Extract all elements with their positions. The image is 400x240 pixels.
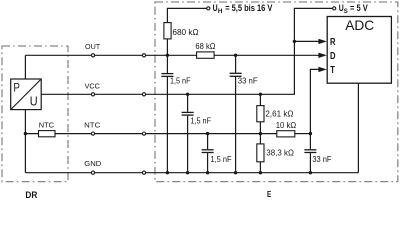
terminal UH: [207, 7, 210, 10]
svg-text:68 kΩ: 68 kΩ: [195, 42, 215, 51]
svg-text:NTC: NTC: [84, 121, 101, 130]
svg-text:33 nF: 33 nF: [312, 155, 331, 164]
wire OUT line: [25, 54, 319, 56]
wire R line with arrow into ADC: [294, 39, 326, 44]
junction VCC / 1,5nF: [186, 93, 189, 96]
junction 1,5nF at GND: [206, 171, 209, 174]
svg-text:= 5,5 bis 16 V: = 5,5 bis 16 V: [225, 3, 272, 13]
capacitor 1,5 nF (OUT to GND): [161, 55, 190, 172]
svg-text:2,61 kΩ: 2,61 kΩ: [265, 110, 293, 119]
connector pin OUT right: [142, 54, 145, 57]
sensor cell (P/U pressure transducer): [11, 79, 42, 110]
dashed enclosure E (evaluation circuit): [155, 2, 398, 182]
svg-text:H: H: [218, 8, 223, 15]
wire NTC line left segment: [25, 133, 277, 135]
svg-text:U: U: [213, 3, 218, 13]
wire T line with arrow into ADC: [310, 67, 326, 134]
connector pin NTC right: [142, 132, 145, 135]
resistor 68 kOhm: [195, 42, 215, 58]
capacitor 33 nF (T-node to GND): [304, 134, 331, 173]
resistor 680 kOhm: [164, 23, 199, 56]
svg-text:P: P: [13, 82, 20, 95]
junction 33nF at GND: [309, 171, 312, 174]
resistor 10 kOhm: [276, 121, 297, 137]
svg-text:DR: DR: [25, 190, 37, 199]
resistor NTC: [39, 120, 56, 136]
label UH = 5,5 bis 16 V: [213, 3, 273, 15]
wire VCC line: [41, 93, 295, 95]
junction OUT / 33nF: [234, 54, 237, 57]
capacitor 33 nF (OUT to GND): [230, 55, 258, 172]
junction NTC divider node: [259, 132, 262, 135]
svg-text:OUT: OUT: [85, 42, 101, 51]
label US = 5 V: [339, 3, 368, 15]
svg-text:1,5 nF: 1,5 nF: [191, 116, 212, 125]
connector pin VCC left: [91, 93, 94, 96]
svg-text:ADC: ADC: [345, 18, 374, 33]
IC ADC: [327, 17, 391, 84]
resistor 2,61 kOhm: [257, 94, 294, 133]
wire ADC ground return: [357, 83, 359, 173]
wire NTC line right segment: [295, 133, 311, 135]
junction 1,5nF at GND: [186, 171, 189, 174]
wire US feed (VCC up to supply terminal): [294, 8, 333, 94]
connector pin VCC right: [142, 93, 145, 96]
junction R reference tap: [293, 40, 296, 43]
svg-text:33 nF: 33 nF: [238, 76, 258, 85]
svg-text:NTC: NTC: [39, 120, 55, 129]
junction T-node on NTC net: [309, 132, 312, 135]
dashed enclosure DR (sensor module): [2, 46, 68, 182]
junction 1,5nF at GND: [166, 171, 169, 174]
svg-text:= 5 V: = 5 V: [350, 3, 368, 13]
svg-text:R: R: [330, 36, 336, 47]
wire D arrow into ADC (signal line): [318, 53, 326, 58]
svg-text:S: S: [344, 8, 349, 15]
resistor 38,3 kOhm: [257, 134, 294, 173]
svg-text:10 kΩ: 10 kΩ: [276, 121, 297, 130]
svg-text:E: E: [267, 189, 272, 199]
svg-text:GND: GND: [84, 159, 102, 168]
wire GND line: [25, 172, 358, 174]
junction OUT / 680k / 1,5nF: [166, 54, 169, 57]
svg-text:680 kΩ: 680 kΩ: [172, 28, 198, 37]
svg-text:T: T: [330, 64, 335, 75]
connector pin GND right: [142, 171, 145, 174]
svg-text:1,5 nF: 1,5 nF: [211, 155, 232, 164]
junction 38,3k at GND: [259, 171, 262, 174]
connector pin GND left: [91, 171, 94, 174]
wire sensor bottom down to NTC node and GND: [24, 110, 26, 173]
svg-text:1,5 nF: 1,5 nF: [170, 76, 191, 85]
junction VCC / 2,61k: [259, 93, 262, 96]
svg-text:38,3 kΩ: 38,3 kΩ: [266, 148, 294, 157]
junction 33nF at GND: [234, 171, 237, 174]
capacitor 1,5 nF (NTC to GND): [202, 134, 232, 173]
terminal US: [333, 7, 336, 10]
connector pin NTC left: [91, 132, 94, 135]
junction sensor/NTC node: [24, 132, 27, 135]
wire pull-up feed to UH terminal: [167, 8, 207, 22]
capacitor 1,5 nF (VCC to GND): [182, 94, 211, 172]
svg-text:U: U: [30, 94, 38, 109]
connector pin OUT left: [91, 54, 94, 57]
junction NTC / 1,5nF: [206, 132, 209, 135]
svg-text:D: D: [330, 50, 336, 61]
svg-text:VCC: VCC: [85, 81, 101, 90]
wire sensor output up to OUT: [24, 55, 26, 79]
